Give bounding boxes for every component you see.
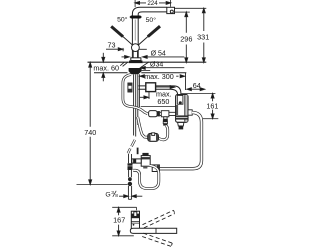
pipe segment: [129, 170, 132, 177]
dim 167 bottom ref line: [112, 235, 134, 237]
control unit bottom band: [176, 115, 188, 119]
svg-text:161: 161: [206, 101, 218, 110]
svg-text:740: 740: [84, 128, 96, 137]
dim 161 bottom ref line: [203, 118, 218, 120]
dim 64 line: [191, 88, 201, 90]
aerator block at spout tip: [167, 7, 175, 13]
leader Ø54: [147, 56, 184, 58]
swivel collar (dark band below elbow): [129, 16, 142, 19]
dim 296 top ref line: [175, 11, 190, 13]
ref vertical line right of counter: [185, 73, 187, 90]
shank detail line right of nut: [142, 69, 151, 71]
stub connector to loop hose: [188, 110, 192, 115]
plan view column: [131, 211, 139, 229]
dim 331 top ref line: [175, 7, 207, 9]
dashed swivel spout lower: [143, 233, 172, 243]
plan view spout bar: [130, 228, 176, 233]
dim 161 top ref line: [181, 92, 215, 94]
mounting nut (dark): [129, 68, 142, 74]
svg-text:50°: 50°: [146, 16, 157, 24]
trigger unit: [142, 153, 148, 156]
spout elbow + horizontal tube outer: [132, 7, 166, 14]
dashed swivel spout upper: [143, 210, 174, 224]
countertop underside line left: [94, 72, 128, 74]
big loop end connector: [152, 165, 159, 172]
supply pipe below trigger: [129, 154, 132, 163]
svg-text:167: 167: [113, 216, 125, 225]
inner hose line in pipe: [134, 20, 136, 41]
svg-text:Ø34: Ø34: [150, 62, 163, 69]
lever left thin: [123, 36, 136, 47]
connector circles: [128, 177, 132, 181]
control unit inner top rect: [177, 95, 183, 104]
control unit box: [176, 95, 188, 123]
dim 224 line: [135, 2, 171, 4]
dim 161 line: [212, 94, 214, 119]
spray hose left bulge (outlined tube): [123, 75, 148, 114]
countertop underside line right: [141, 72, 186, 74]
hose weight block: [148, 134, 159, 142]
G3/8 dim arrows: [119, 195, 124, 197]
hose bundle vertical lines: [133, 74, 135, 135]
faucet neck below ball: [133, 51, 137, 58]
trigger unit left arm: [132, 159, 141, 163]
leader from box down: [148, 92, 150, 99]
dim max60 top arrow: [102, 53, 104, 59]
dim 296 line: [185, 14, 187, 61]
lever right wedge: [148, 26, 160, 36]
big loop hose: [159, 113, 202, 169]
control unit bottom outlet: [178, 122, 184, 126]
svg-text:64: 64: [193, 81, 201, 90]
dim 740 bottom ref line: [77, 184, 128, 186]
svg-text:73: 73: [108, 40, 116, 49]
control unit left dark patch: [176, 105, 178, 115]
svg-text:224: 224: [147, 0, 158, 7]
svg-text:max. 300: max. 300: [144, 72, 174, 81]
lever left wedge: [111, 26, 123, 36]
svg-text:max. 60: max. 60: [93, 63, 119, 72]
threaded pipe end G3/8: [128, 186, 131, 199]
small box (power supply): [146, 83, 156, 92]
check valve tube to unit: [160, 112, 176, 115]
svg-text:G: G: [105, 192, 110, 199]
dim 73 tick: [122, 48, 124, 51]
countertop top line right: [143, 61, 207, 63]
dim max60 bottom arrow: [102, 76, 104, 81]
lever neutral position line: [139, 48, 147, 50]
supply hose break (dashes): [128, 140, 135, 154]
svg-text:650: 650: [157, 97, 169, 106]
svg-text:3: 3: [111, 190, 114, 196]
dim 167 top ref line: [112, 206, 136, 208]
svg-text:296: 296: [180, 35, 192, 44]
countertop top line left: [88, 61, 129, 63]
weight hose (faucet to J-curve): [138, 117, 148, 137]
spout vertical pipe: [131, 14, 133, 60]
dim 73 line: [106, 48, 118, 50]
ball joint: [132, 44, 140, 52]
dim 167 line: [118, 210, 120, 234]
T-valve below tube: [164, 117, 167, 119]
leader from box to right: [156, 86, 171, 88]
small loop hose: [133, 166, 159, 189]
small dark piece left of trigger unit: [137, 148, 139, 155]
leader Ø34: [145, 67, 185, 69]
escutcheon (dark base flange): [129, 61, 143, 64]
elbow tube A to control unit: [139, 86, 181, 95]
hose clip on bundle: [128, 83, 132, 92]
aerator outlet circle: [170, 10, 173, 13]
check valve dark band: [157, 111, 160, 116]
fitting on supply pipe (dark bands): [128, 163, 133, 165]
svg-text:8: 8: [115, 193, 118, 199]
svg-text:Ø 54: Ø 54: [151, 50, 166, 57]
dim max300 line: [143, 75, 179, 77]
dim 740 line: [89, 65, 91, 182]
svg-text:50°: 50°: [117, 16, 128, 24]
svg-text:331: 331: [197, 32, 209, 41]
dim 331 line: [203, 10, 205, 61]
G3/8 fraction slash: [113, 191, 116, 197]
control unit dot: [179, 101, 182, 104]
dim 224 extension lines: [134, 0, 136, 7]
leader from bundle with right arrow: [140, 96, 145, 98]
check valve cylinder: [149, 111, 158, 117]
650 ref line: [141, 106, 176, 108]
lever right thin: [135, 36, 148, 47]
faucet body flare: [131, 58, 141, 61]
spout elbow inner: [138, 12, 167, 14]
control unit right side band: [185, 95, 188, 122]
hatch marks countertop: [123, 62, 128, 66]
tee fitting on tube: [161, 111, 169, 117]
